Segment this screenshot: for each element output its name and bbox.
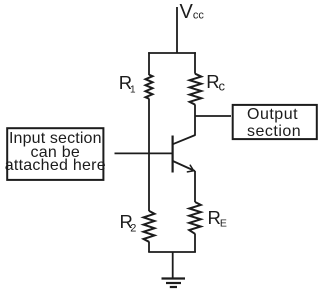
svg-text:RE: RE [208, 207, 227, 230]
svg-text:Output: Output [247, 106, 298, 123]
svg-text:attached here: attached here [5, 157, 106, 174]
svg-text:R2: R2 [120, 211, 137, 234]
svg-text:section: section [247, 123, 301, 140]
svg-text:Rc: Rc [206, 71, 225, 93]
svg-text:Vcc: Vcc [180, 1, 205, 23]
svg-text:R1: R1 [119, 72, 136, 96]
